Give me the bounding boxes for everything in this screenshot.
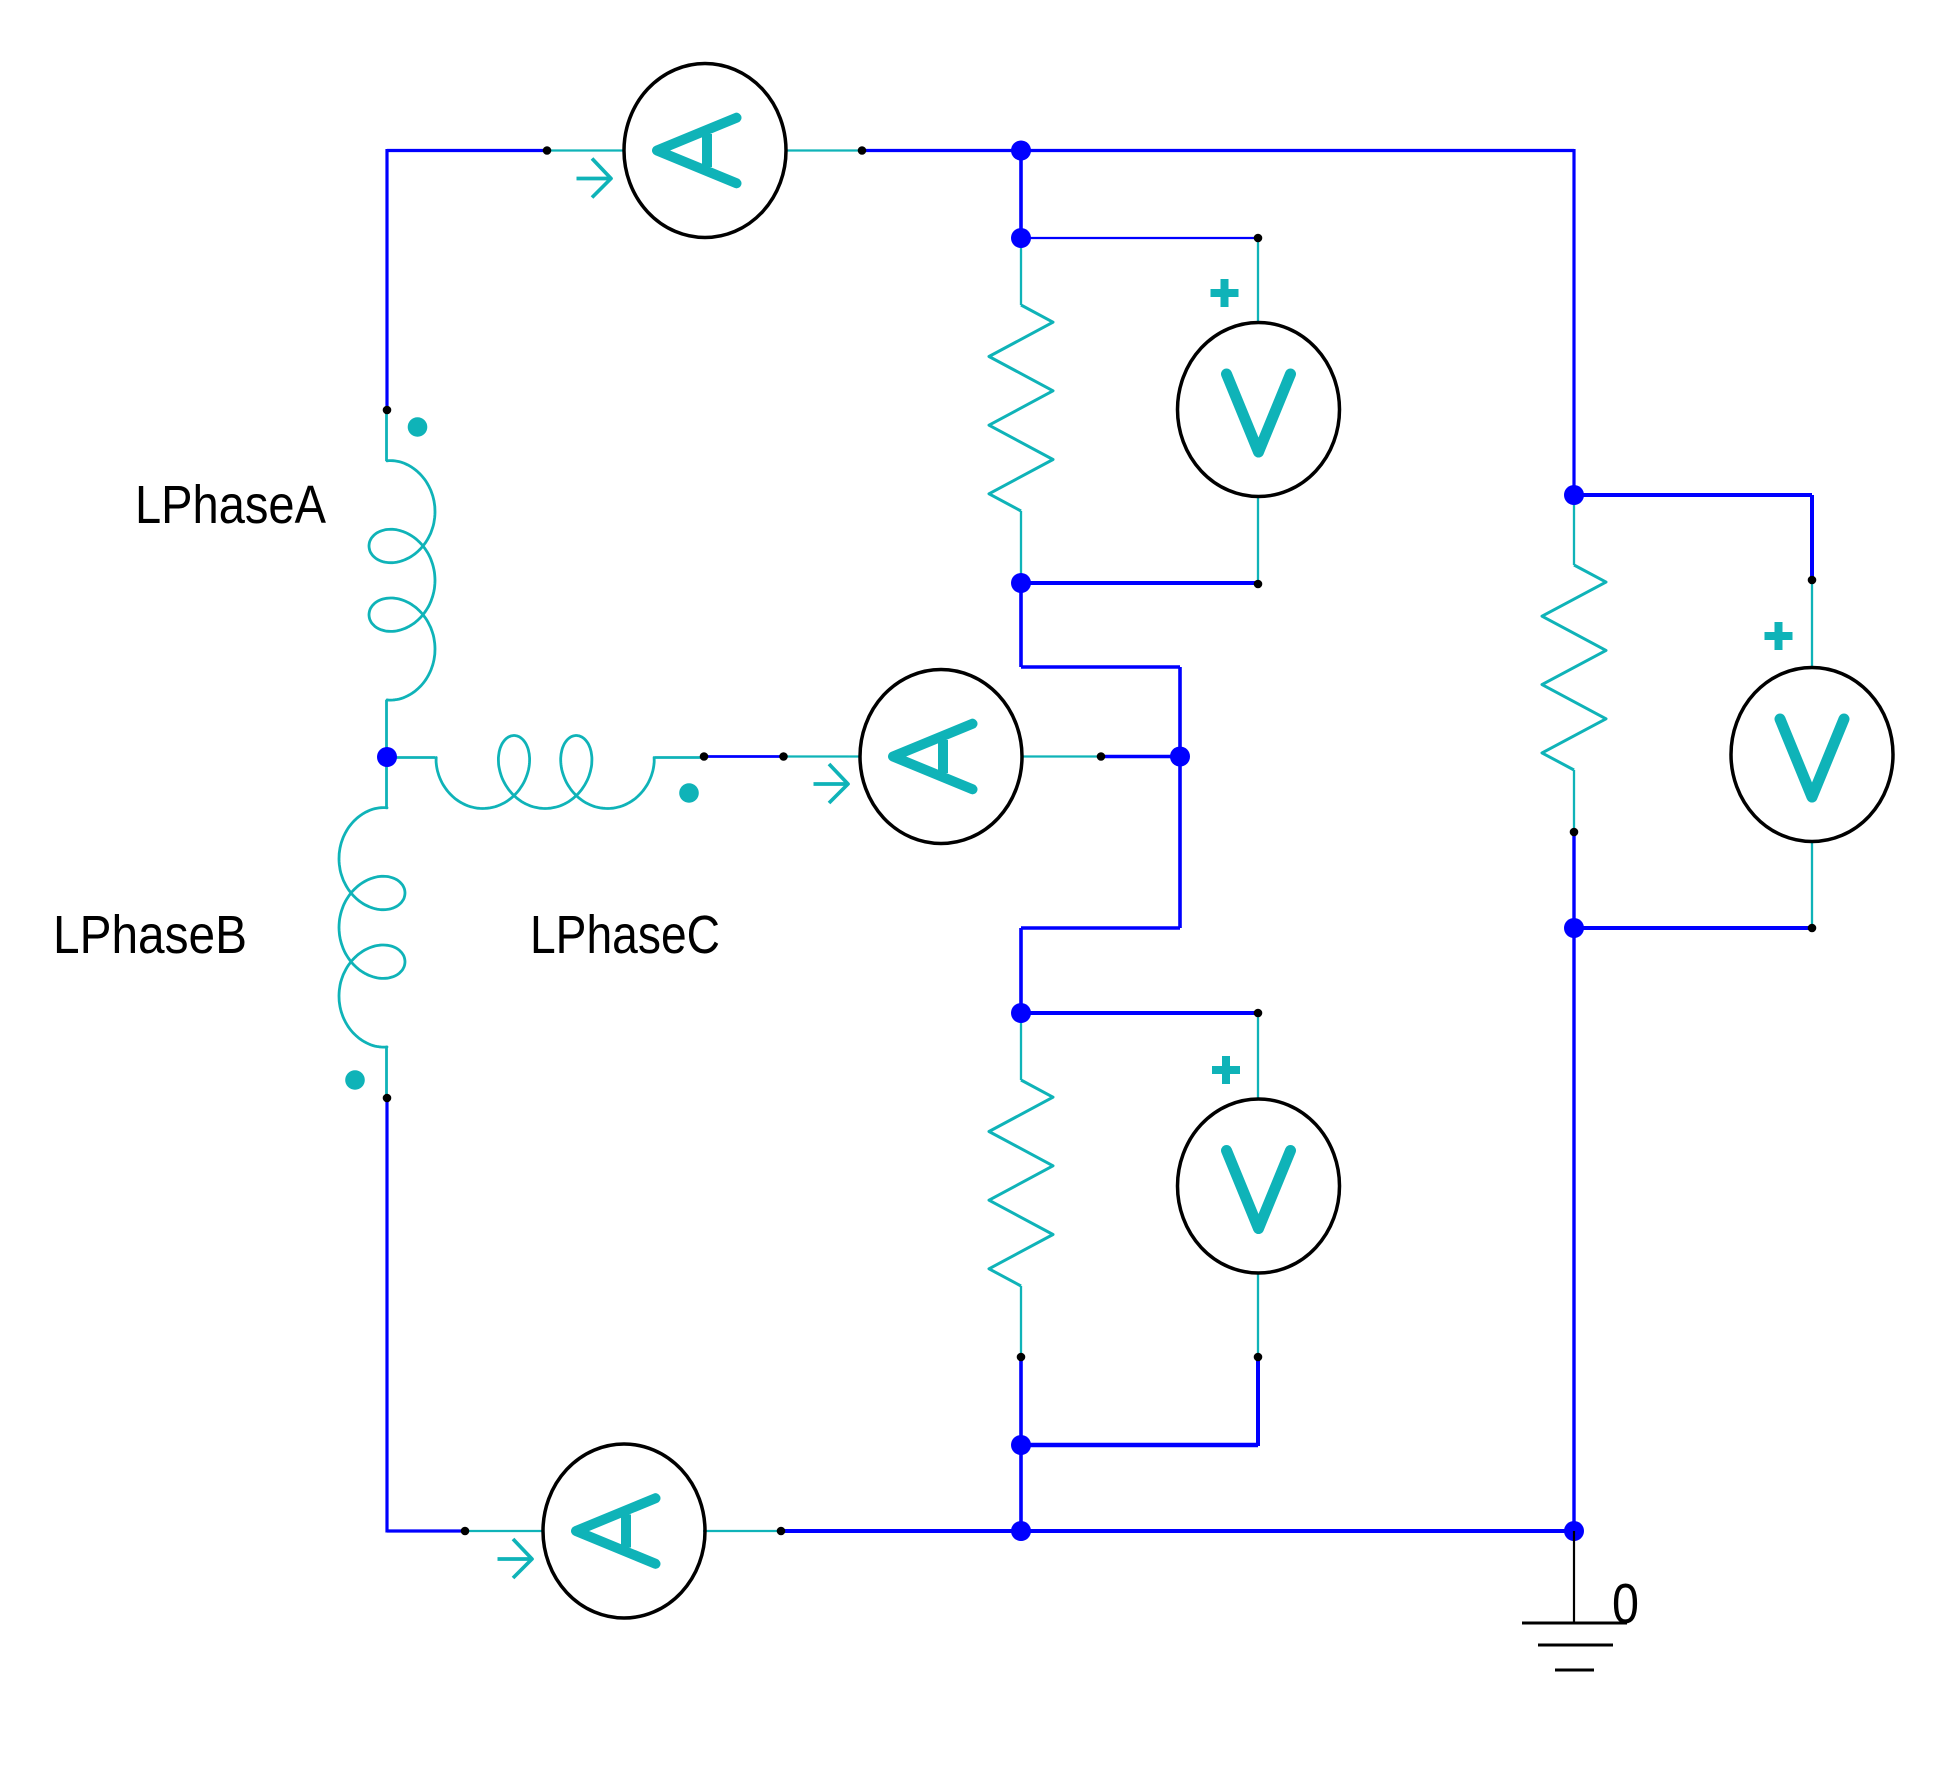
svg-text:0: 0 [1612, 1572, 1639, 1636]
svg-text:LPhaseA: LPhaseA [135, 476, 326, 535]
svg-text:LPhaseB: LPhaseB [53, 906, 247, 965]
svg-text:LPhaseC: LPhaseC [530, 906, 720, 965]
